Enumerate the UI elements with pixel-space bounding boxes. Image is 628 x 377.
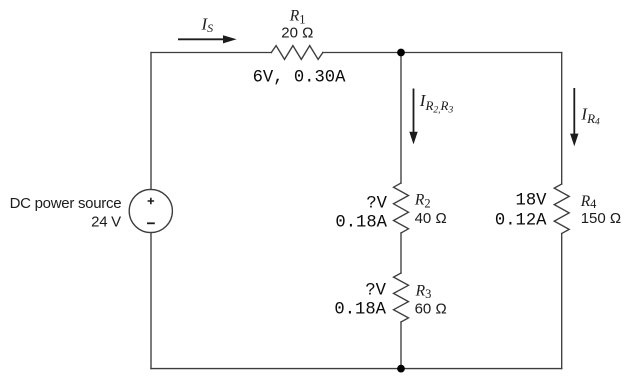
svg-text:60 Ω: 60 Ω: [415, 300, 447, 317]
wire right vertical upper (to R4): [561, 53, 563, 185]
arrow I_R2,R3: [409, 89, 417, 145]
resistor R3 zigzag: [394, 273, 409, 322]
wire R3 to node B: [400, 322, 402, 369]
svg-text:R2: R2: [414, 191, 431, 210]
svg-text:0.18A: 0.18A: [334, 301, 386, 320]
wire R1 to node A: [323, 52, 562, 54]
svg-text:?V: ?V: [366, 194, 387, 213]
svg-text:0.18A: 0.18A: [335, 213, 387, 232]
svg-text:IR4: IR4: [580, 105, 600, 128]
svg-text:150 Ω: 150 Ω: [581, 210, 621, 227]
svg-text:R4: R4: [580, 193, 597, 211]
svg-text:18V: 18V: [516, 191, 548, 210]
svg-text:40 Ω: 40 Ω: [415, 210, 447, 227]
arrow I_R4: [570, 88, 578, 146]
wire top-left horizontal (source to R1): [151, 52, 271, 54]
wire left vertical lower: [150, 233, 152, 369]
svg-text:20 Ω: 20 Ω: [281, 24, 313, 41]
svg-text:R3: R3: [415, 282, 432, 301]
arrow I_S: [178, 35, 237, 43]
svg-text:0.12A: 0.12A: [495, 211, 547, 230]
wire R2 to R3: [400, 233, 402, 273]
resistor R2 zigzag: [394, 183, 409, 233]
svg-text:?V: ?V: [365, 282, 386, 301]
svg-text:DC power source: DC power source: [10, 195, 122, 212]
voltage source V1 circle: [129, 189, 172, 232]
svg-text:IR2,R3: IR2,R3: [419, 91, 454, 115]
resistor R1 zigzag: [271, 46, 323, 60]
wire bottom horizontal: [151, 368, 562, 370]
wire middle vertical upper (node A to R2): [400, 53, 402, 184]
node B junction dot: [397, 365, 405, 373]
V1 minus sign: [147, 222, 155, 224]
svg-text:6V, 0.30A: 6V, 0.30A: [253, 69, 347, 88]
wire left vertical upper: [150, 53, 152, 190]
svg-text:IS: IS: [201, 14, 214, 35]
V1 plus sign: [148, 198, 155, 205]
svg-text:24 V: 24 V: [91, 213, 121, 230]
wire R4 to bottom: [561, 234, 563, 369]
resistor R4 zigzag: [554, 184, 569, 234]
node A junction dot: [397, 49, 405, 57]
